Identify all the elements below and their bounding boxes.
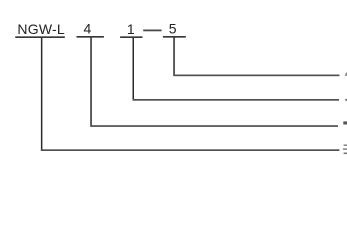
svg-text:5: 5: [169, 21, 177, 37]
underline under 4: [77, 36, 104, 38]
wire leader from NGW-L (horizontal): [41, 149, 340, 151]
wire leader from 1 (vertical): [133, 38, 135, 101]
underline under 1: [120, 36, 142, 38]
svg-text:NGW-L: NGW-L: [17, 21, 65, 37]
wire leader from 4 (horizontal): [90, 125, 338, 127]
wire leader from 5 (vertical): [173, 38, 175, 76]
dash between 1 and 5: [143, 30, 161, 32]
wire leader from 5 (horizontal): [173, 75, 339, 77]
wire leader from 1 (horizontal): [133, 99, 340, 101]
svg-text:1: 1: [127, 21, 135, 37]
clipped label fragment at line 2: [345, 99, 347, 101]
wire leader from NGW-L (vertical): [41, 38, 43, 151]
wire leader from 4 (vertical): [90, 38, 92, 127]
clipped label fragment at line 4: [343, 145, 347, 155]
clipped label fragment at line 3: [343, 121, 347, 124]
underline under 5: [163, 36, 186, 38]
svg-text:4: 4: [84, 21, 92, 37]
clipped label fragment at line 1: [345, 72, 347, 76]
underline under NGW-L: [15, 36, 65, 38]
